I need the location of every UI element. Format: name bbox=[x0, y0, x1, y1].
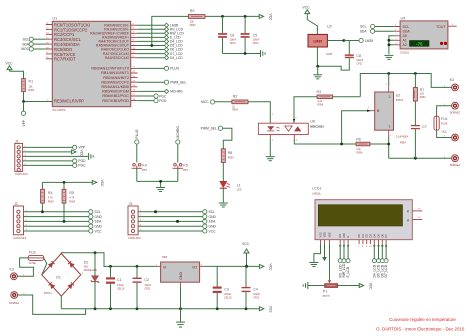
svg-text:CP21: CP21 bbox=[144, 287, 151, 290]
U1 right pin stubs top bank pins 2-10 bbox=[131, 24, 138, 59]
svg-text:J2: J2 bbox=[14, 202, 18, 206]
svg-text:4.7K: 4.7K bbox=[48, 197, 53, 200]
svg-text:R7: R7 bbox=[420, 88, 425, 92]
svg-text:0.1uF/400V: 0.1uF/400V bbox=[396, 136, 409, 139]
svg-text:CEL2V: CEL2V bbox=[117, 287, 125, 290]
wire R9 to VCC bbox=[205, 15, 259, 18]
node SDA terminal (U5) bbox=[360, 29, 394, 33]
ground (L1) bbox=[219, 203, 228, 207]
svg-text:R054: R054 bbox=[190, 24, 196, 27]
svg-text:R054: R054 bbox=[48, 201, 54, 204]
zener diode D2 bbox=[84, 253, 99, 309]
svg-text:VCC: VCC bbox=[95, 229, 103, 233]
svg-text:VEE: VEE bbox=[328, 232, 332, 237]
wire K3 pin2 to bottom rail bbox=[18, 295, 86, 314]
svg-text:D2: D2 bbox=[84, 260, 89, 264]
svg-text:A1: A1 bbox=[403, 39, 407, 43]
wire R6 to U2 pin1 and bottom rail bbox=[370, 136, 390, 158]
svg-text:VSS: VSS bbox=[318, 232, 322, 237]
connector K3 bbox=[9, 268, 25, 306]
resistor R6 bbox=[356, 138, 370, 155]
U5 pin stubs bbox=[394, 25, 400, 45]
svg-text:SCL: SCL bbox=[23, 37, 30, 41]
svg-text:CP21: CP21 bbox=[230, 42, 237, 45]
svg-text:A0: A0 bbox=[403, 34, 407, 38]
capacitor C3 bbox=[213, 266, 233, 308]
wire R2 to U6 pin1 bbox=[248, 102, 274, 123]
svg-text:SCL: SCL bbox=[209, 210, 216, 214]
wire P1 left to ground (sideways) bbox=[303, 282, 325, 289]
svg-text:PWM_SEL: PWM_SEL bbox=[201, 126, 217, 130]
svg-text:R054: R054 bbox=[400, 142, 406, 145]
connector J1 bbox=[15, 139, 28, 176]
svg-text:100nF: 100nF bbox=[253, 293, 260, 296]
wire C6 C5 to ground bbox=[223, 52, 261, 55]
svg-text:PGD: PGD bbox=[159, 99, 167, 103]
svg-text:FUSE: FUSE bbox=[441, 122, 448, 125]
svg-text:U6: U6 bbox=[310, 120, 315, 124]
node PLUG vertical terminal (K4) bbox=[135, 129, 140, 162]
svg-text:C2: C2 bbox=[144, 278, 149, 282]
svg-text:U1: U1 bbox=[53, 17, 58, 21]
svg-text:PGD: PGD bbox=[78, 159, 86, 163]
wire A0 A1 A2 to ground bbox=[388, 36, 395, 54]
J3 wires and terminals bbox=[138, 210, 216, 234]
svg-text:R5: R5 bbox=[69, 191, 74, 195]
node PGC terminal (J1) bbox=[73, 163, 87, 167]
svg-text:GND: GND bbox=[209, 215, 217, 219]
capacitor C1 bbox=[106, 266, 125, 308]
svg-text:MCHRG: MCHRG bbox=[176, 126, 180, 139]
svg-text:R1: R1 bbox=[29, 79, 34, 83]
svg-text:100uF: 100uF bbox=[224, 293, 231, 296]
capacitor C6 bbox=[218, 16, 237, 53]
svg-text:SCL: SCL bbox=[95, 210, 102, 214]
svg-text:LED: LED bbox=[237, 189, 242, 192]
svg-text:VI: VI bbox=[163, 265, 166, 269]
ground (sideways) bbox=[261, 50, 266, 57]
svg-text:R054: R054 bbox=[357, 152, 363, 155]
svg-text:MOC3021: MOC3021 bbox=[310, 125, 324, 129]
capacitor C7 bbox=[396, 125, 427, 158]
thermometer U5 DS1621 bbox=[400, 17, 448, 55]
svg-text:DS1621: DS1621 bbox=[401, 51, 410, 54]
svg-text:R054: R054 bbox=[232, 109, 238, 112]
power VCC arrow right (U4 rail) bbox=[259, 264, 272, 272]
svg-text:SDA: SDA bbox=[95, 220, 103, 224]
svg-text:4.7K: 4.7K bbox=[69, 197, 74, 200]
svg-text:C4: C4 bbox=[253, 287, 258, 291]
power VCC arrow (J1) bbox=[72, 150, 84, 158]
wire U2 gate bbox=[342, 110, 371, 145]
ground (U6) bbox=[266, 157, 275, 161]
svg-text:RB7/KBI3/PGD: RB7/KBI3/PGD bbox=[102, 98, 129, 103]
svg-text:BPT: BPT bbox=[183, 169, 188, 172]
svg-text:VCC: VCC bbox=[209, 229, 217, 233]
svg-text:SCL: SCL bbox=[360, 25, 367, 29]
svg-text:PLUG: PLUG bbox=[135, 129, 139, 138]
U1 left pin stubs pins 11-18 bbox=[46, 23, 53, 59]
svg-text:A2: A2 bbox=[403, 43, 407, 47]
LCD pin labels bbox=[318, 232, 388, 238]
node SCL terminal bbox=[23, 37, 46, 41]
svg-text:R9: R9 bbox=[190, 9, 195, 13]
svg-text:100nF: 100nF bbox=[144, 284, 151, 287]
svg-text:MOC: MOC bbox=[21, 47, 29, 51]
svg-text:BORNE2: BORNE2 bbox=[450, 111, 461, 114]
svg-text:VCC: VCC bbox=[100, 180, 104, 188]
svg-text:CP21: CP21 bbox=[253, 297, 260, 300]
svg-text:K1: K1 bbox=[443, 130, 447, 134]
node PWM_SEL terminal (R8) bbox=[201, 126, 232, 149]
svg-text:BTA16: BTA16 bbox=[396, 99, 404, 102]
svg-text:C6: C6 bbox=[230, 33, 235, 37]
svg-text:PWM_SEL: PWM_SEL bbox=[170, 81, 186, 85]
J1 wires bbox=[23, 146, 89, 166]
button K4 bbox=[132, 163, 148, 181]
svg-text:R4: R4 bbox=[48, 191, 53, 195]
svg-text:K3: K3 bbox=[10, 268, 14, 272]
capacitor C4 bbox=[242, 266, 261, 308]
svg-text:LM35: LM35 bbox=[313, 39, 322, 43]
svg-text:D0: D0 bbox=[357, 234, 361, 238]
svg-text:R6: R6 bbox=[356, 138, 361, 142]
potentiometer P1 bbox=[323, 284, 338, 298]
svg-text:LM35: LM35 bbox=[326, 53, 333, 56]
svg-text:100nF: 100nF bbox=[230, 39, 237, 42]
wire K2 to FU1 bbox=[437, 106, 452, 117]
wire FU1 to K1 bbox=[437, 130, 452, 137]
node MCC terminal bbox=[201, 100, 232, 104]
svg-text:D3: D3 bbox=[369, 234, 373, 238]
button K5 bbox=[173, 163, 189, 181]
svg-text:K4: K4 bbox=[142, 163, 146, 167]
svg-text:GND: GND bbox=[209, 225, 217, 229]
svg-text:D2: D2 bbox=[365, 234, 369, 238]
wire VCC to R1 bbox=[10, 71, 24, 78]
svg-text:CONN-SIL6: CONN-SIL6 bbox=[15, 173, 28, 176]
power VCC down arrow (LCD VDD) bbox=[322, 244, 327, 261]
svg-text:K5: K5 bbox=[183, 163, 187, 167]
svg-text:CONN-SIL5: CONN-SIL5 bbox=[13, 237, 26, 240]
wires U1 right bank to terminals bbox=[138, 25, 165, 58]
svg-text:U3: U3 bbox=[327, 24, 332, 28]
node SCL terminal (U5) bbox=[360, 24, 394, 28]
svg-text:SCL: SCL bbox=[403, 25, 410, 29]
svg-text:U2: U2 bbox=[396, 94, 401, 98]
connector J3 bbox=[128, 202, 141, 240]
wire bridge plus rail bbox=[61, 251, 155, 267]
fuse FU2 bbox=[28, 250, 44, 264]
resistor R1 bbox=[22, 79, 35, 93]
power VCC arrow right bbox=[259, 14, 272, 22]
wire K4 K5 to ground bbox=[137, 180, 178, 187]
power VCC (R1) bbox=[6, 61, 14, 71]
wire U6 pin4 to R6 bbox=[294, 135, 356, 146]
svg-text:R054: R054 bbox=[69, 201, 75, 204]
wire R4 R5 to VCC bbox=[42, 180, 104, 188]
resistor R3 bbox=[317, 90, 333, 107]
svg-text:GND: GND bbox=[95, 215, 103, 219]
wires LCD RS RW E to terminals bbox=[338, 244, 350, 278]
resistor R2 bbox=[232, 94, 248, 111]
wire LCD VSS to ground bbox=[314, 244, 321, 262]
svg-text:220: 220 bbox=[420, 93, 425, 96]
svg-text:VDD: VDD bbox=[323, 232, 327, 238]
svg-text:7805: 7805 bbox=[162, 256, 168, 259]
ground (U4) bbox=[176, 322, 185, 327]
svg-text:R8: R8 bbox=[228, 151, 233, 155]
svg-text:C5: C5 bbox=[253, 33, 258, 37]
U1 right pin stubs bottom bank pins 21-28 bbox=[131, 67, 138, 101]
ground (J1 sideways) bbox=[89, 153, 94, 160]
ground (LCD VSS) bbox=[309, 263, 318, 267]
node VPP terminal bbox=[21, 102, 26, 127]
J2 wires and terminals bbox=[24, 210, 103, 234]
power VSS arrow right (bottom rail) bbox=[259, 306, 272, 313]
node MCHRG terminal (U1) bbox=[138, 89, 184, 93]
svg-text:2: 2 bbox=[389, 95, 391, 99]
resistor R9 bbox=[188, 9, 205, 27]
ground (U5) bbox=[384, 55, 393, 59]
display LCD1 bbox=[312, 187, 422, 240]
wire LCD VEE to P1 bbox=[328, 244, 331, 283]
wire U4 gnd to ground bbox=[180, 287, 182, 322]
svg-text:VCC: VCC bbox=[242, 242, 250, 246]
svg-text:LM016L: LM016L bbox=[312, 193, 321, 196]
svg-text:R2: R2 bbox=[233, 94, 238, 98]
wire bridge minus to bottom rail bbox=[60, 296, 62, 309]
svg-text:R054: R054 bbox=[228, 157, 234, 160]
optocoupler U6 MOC3021 bbox=[258, 120, 324, 135]
LCD pin stubs bbox=[320, 240, 389, 248]
svg-text:P1: P1 bbox=[323, 289, 327, 293]
svg-text:R3: R3 bbox=[317, 90, 322, 94]
node LM35 / LCD bus terminals bbox=[164, 23, 184, 60]
node PLUG terminal bbox=[138, 66, 180, 70]
svg-text:C3: C3 bbox=[224, 287, 229, 291]
svg-text:MCHRG: MCHRG bbox=[170, 90, 183, 94]
wire U3 out to LM35 terminal bbox=[326, 39, 359, 56]
svg-text:RA0/OSC/CLKI: RA0/OSC/CLKI bbox=[105, 56, 129, 60]
node PGC terminal bbox=[138, 94, 167, 98]
svg-text:MCC: MCC bbox=[201, 100, 209, 104]
svg-text:FU2: FU2 bbox=[29, 250, 36, 254]
svg-text:RW: RW bbox=[342, 233, 346, 238]
node SDA terminal bbox=[22, 42, 46, 46]
svg-text:VCC: VCC bbox=[269, 14, 273, 22]
node PWM_SEL terminal (U1) bbox=[138, 80, 187, 84]
svg-text:Couveuse régulée en températur: Couveuse régulée en température bbox=[389, 317, 456, 322]
resistor R8 bbox=[221, 149, 234, 182]
node MCHRG vertical terminal (K5) bbox=[176, 126, 181, 163]
U5 red leds bbox=[440, 42, 447, 45]
svg-text:36V: 36V bbox=[84, 265, 89, 268]
svg-text:GND: GND bbox=[179, 272, 183, 280]
svg-text:RS: RS bbox=[338, 234, 342, 238]
svg-text:J3: J3 bbox=[129, 202, 133, 206]
svg-text:D7_LCD: D7_LCD bbox=[384, 264, 388, 277]
svg-text:CP21: CP21 bbox=[253, 42, 260, 45]
svg-text:U5: U5 bbox=[401, 17, 406, 21]
microcontroller U1 bbox=[52, 17, 130, 113]
power VCC up arrow bbox=[242, 242, 250, 268]
capacitor C8 bbox=[318, 41, 364, 71]
wire bottom rail bbox=[61, 307, 259, 310]
connector K1 bbox=[443, 130, 461, 167]
wire R9 to D5 row bbox=[150, 16, 188, 46]
svg-text:VCC: VCC bbox=[6, 61, 14, 65]
svg-text:D6: D6 bbox=[380, 234, 384, 238]
svg-text:VSS: VSS bbox=[269, 306, 273, 313]
svg-text:SDA: SDA bbox=[209, 220, 217, 224]
svg-text:VCC: VCC bbox=[269, 264, 273, 272]
svg-text:D5: D5 bbox=[377, 234, 381, 238]
connector J2 bbox=[13, 202, 26, 240]
wire R3 right to rail bbox=[333, 96, 361, 98]
svg-text:LCD1: LCD1 bbox=[312, 187, 321, 191]
triac U2 bbox=[368, 74, 404, 137]
svg-text:VCC: VCC bbox=[369, 283, 373, 291]
svg-text:PONT1: PONT1 bbox=[44, 292, 53, 295]
svg-text:O. DARTOIS - Innov Electroniqu: O. DARTOIS - Innov Electronique - Dec 20… bbox=[376, 327, 465, 332]
svg-text:C1: C1 bbox=[117, 278, 122, 282]
ground (K4 K5) bbox=[156, 188, 165, 192]
svg-text:-75: -75 bbox=[416, 41, 423, 46]
svg-text:CP21: CP21 bbox=[356, 62, 363, 65]
svg-text:L1: L1 bbox=[237, 184, 241, 188]
node LM35 terminal bbox=[359, 38, 373, 42]
wire bottom rail to K1 bbox=[389, 157, 452, 160]
svg-text:PGC: PGC bbox=[159, 94, 167, 98]
svg-text:C7: C7 bbox=[422, 125, 427, 129]
svg-text:TOUT: TOUT bbox=[436, 25, 446, 29]
svg-text:RC7/RX/DT: RC7/RX/DT bbox=[54, 57, 76, 62]
wire U6 pin2 to ground bbox=[270, 135, 274, 157]
svg-text:FUSE: FUSE bbox=[29, 262, 36, 265]
svg-text:R054: R054 bbox=[29, 89, 35, 92]
resistor R5 bbox=[62, 182, 76, 221]
svg-text:VCC: VCC bbox=[80, 150, 84, 158]
svg-text:PGC: PGC bbox=[78, 164, 86, 168]
bridge rectifier D1 bbox=[38, 251, 84, 302]
connector K2 bbox=[444, 78, 461, 114]
svg-text:VPP: VPP bbox=[22, 119, 26, 126]
fuse FU1 bbox=[434, 116, 448, 130]
svg-text:100nF: 100nF bbox=[253, 39, 260, 42]
svg-text:D7: D7 bbox=[384, 234, 388, 238]
node PGD terminal (J1) bbox=[73, 159, 87, 163]
capacitor C5 bbox=[241, 16, 260, 53]
ground (U3) bbox=[313, 75, 322, 79]
svg-text:R054: R054 bbox=[318, 104, 324, 107]
svg-text:LM35: LM35 bbox=[365, 39, 373, 43]
svg-text:GND: GND bbox=[95, 225, 103, 229]
svg-text:D4: D4 bbox=[372, 234, 376, 238]
svg-text:R054: R054 bbox=[420, 96, 426, 99]
wire K3 pin1 to FU2 bbox=[17, 258, 33, 276]
wire mains top rail bbox=[360, 72, 451, 97]
svg-text:CONN-SIL5: CONN-SIL5 bbox=[128, 237, 141, 240]
svg-text:E_LCD: E_LCD bbox=[346, 266, 350, 277]
svg-text:D1: D1 bbox=[56, 276, 61, 280]
node MOC terminal bbox=[21, 47, 46, 51]
power VCC (U3) bbox=[303, 5, 311, 15]
svg-text:K2: K2 bbox=[450, 78, 454, 82]
pin TOUT stub bbox=[448, 24, 457, 26]
U5 display bbox=[410, 41, 430, 47]
wire U3 to ground bbox=[316, 47, 319, 75]
capacitor C2 bbox=[133, 266, 152, 308]
wire R1 to U1 pin1 bbox=[22, 92, 52, 103]
svg-text:D4_LCD: D4_LCD bbox=[170, 56, 183, 60]
svg-text:RE3/MCLR/VPP: RE3/MCLR/VPP bbox=[54, 99, 84, 104]
wire U4 out rail bbox=[204, 265, 259, 267]
resistor R7 bbox=[413, 74, 426, 126]
svg-text:SDA: SDA bbox=[22, 42, 30, 46]
svg-text:D1: D1 bbox=[361, 234, 365, 238]
svg-text:VCC: VCC bbox=[303, 5, 311, 9]
node PGD terminal bbox=[138, 99, 167, 103]
svg-text:PIC 16F872: PIC 16F872 bbox=[53, 109, 66, 112]
wire R3 left to U6 pin6 bbox=[293, 97, 317, 123]
svg-text:E: E bbox=[346, 236, 350, 238]
svg-text:BPT: BPT bbox=[142, 169, 147, 172]
svg-text:J1: J1 bbox=[15, 139, 19, 143]
svg-text:SDA: SDA bbox=[360, 29, 368, 33]
wires LCD D4-D7 to terminals bbox=[372, 244, 388, 278]
svg-text:POTH: POTH bbox=[323, 295, 330, 298]
svg-text:BORNE2: BORNE2 bbox=[450, 164, 461, 167]
svg-text:CEL2V: CEL2V bbox=[224, 297, 232, 300]
svg-text:FU1: FU1 bbox=[441, 117, 448, 121]
wire P1 right to VCC bbox=[338, 283, 373, 291]
wire FU2 to bridge bbox=[42, 258, 47, 275]
temperature sensor U3 LM35 bbox=[308, 24, 332, 47]
svg-text:VO: VO bbox=[192, 265, 197, 269]
svg-text:PLUG: PLUG bbox=[170, 67, 179, 71]
regulator U4 7805 bbox=[156, 256, 205, 287]
wire VCC to U3 bbox=[307, 15, 317, 34]
svg-text:SDA: SDA bbox=[403, 30, 411, 34]
svg-text:1: 1 bbox=[389, 125, 391, 129]
node VPP terminal (J1) bbox=[73, 145, 86, 149]
svg-text:100uF: 100uF bbox=[117, 284, 124, 287]
resistor R4 bbox=[41, 182, 55, 211]
svg-text:BORNE2: BORNE2 bbox=[9, 302, 20, 305]
led L1 bbox=[220, 181, 242, 203]
svg-text:C8: C8 bbox=[356, 54, 361, 58]
